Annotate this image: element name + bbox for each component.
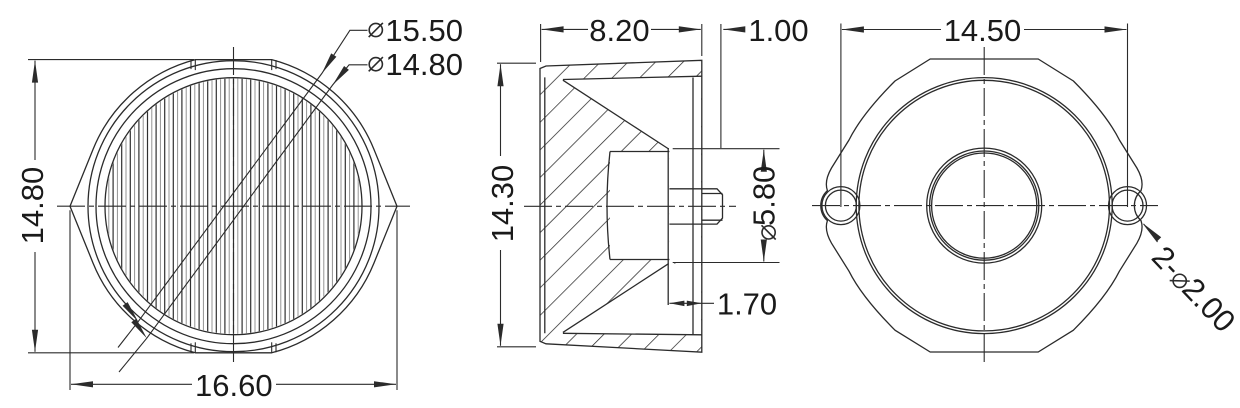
- svg-text:14.30: 14.30: [485, 165, 520, 243]
- middle centerline: [524, 205, 736, 207]
- horizontal centerline: [57, 205, 410, 207]
- svg-text:8.20: 8.20: [589, 13, 649, 48]
- svg-text:15.50: 15.50: [385, 13, 463, 48]
- leader diameter 14.80: [119, 65, 368, 372]
- svg-text:1.70: 1.70: [717, 287, 777, 322]
- vertical centerline: [233, 47, 235, 366]
- recess lines: [667, 148, 669, 305]
- cone lower curve: [563, 264, 669, 333]
- section outlines: [540, 60, 723, 352]
- leader diameter 15.50: [118, 30, 368, 347]
- dim 8.20: [541, 24, 702, 62]
- back big rim circles: [822, 78, 1147, 334]
- right view centerlines: [812, 205, 1158, 207]
- holder block: [607, 152, 610, 260]
- section body hatched: [540, 60, 702, 352]
- outer profile with flats and side vertices: [70, 60, 397, 353]
- rim ring r=145.5: [88, 61, 379, 352]
- svg-text:16.60: 16.60: [195, 368, 273, 403]
- rim ring r=137.5: [96, 69, 371, 344]
- mounting hole left: [822, 187, 860, 225]
- svg-text:5.80: 5.80: [747, 166, 782, 226]
- dim 14.30: [497, 63, 536, 347]
- dim 1.00: [721, 24, 745, 148]
- dim 14.80 vertical left: [28, 60, 194, 353]
- dim 16.60 horizontal bottom: [70, 210, 397, 390]
- pin: [669, 188, 701, 190]
- dim 14.50: [841, 24, 1128, 208]
- back outline: [821, 59, 1142, 352]
- svg-text:14.50: 14.50: [944, 13, 1022, 48]
- mounting hole right: [1109, 187, 1147, 225]
- cone upper curve: [563, 80, 669, 149]
- left view: front view of lens: [70, 60, 397, 353]
- svg-text:1.00: 1.00: [748, 13, 808, 48]
- leader 2-diameter 2.00: [1144, 224, 1158, 242]
- svg-text:14.80: 14.80: [15, 167, 50, 245]
- dim 1.70: [669, 302, 714, 304]
- ribbed lens boundary: [105, 78, 362, 335]
- dim diameter 5.80: [673, 149, 780, 263]
- cavity white regions: [563, 77, 701, 149]
- svg-text:14.80: 14.80: [385, 47, 463, 82]
- center recess circles: [927, 148, 1042, 263]
- facet tick marks: [191, 60, 276, 353]
